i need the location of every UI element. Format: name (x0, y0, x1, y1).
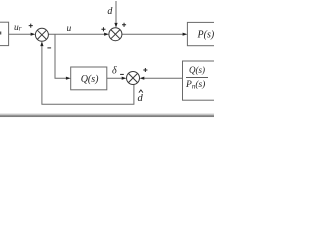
into plant box (183, 33, 188, 36)
svg-text:δ: δ (112, 66, 117, 77)
plus sign junction1 (29, 24, 33, 28)
disturbance d input wire (115, 1, 117, 25)
into Q(s) box (66, 77, 71, 80)
minus sign junction3 (120, 73, 124, 75)
controller box (cut off at left edge) (0, 22, 9, 45)
into junction2 from top (d) (114, 23, 117, 28)
feedback dhat path (42, 45, 134, 104)
wire Q(s) to junction3 (107, 77, 124, 79)
fragment of text in cut-off left box (0, 32, 1, 35)
bottom gray rule (0, 113, 214, 117)
into junction1 from left (31, 33, 36, 36)
svg-text:Q(s): Q(s) (81, 74, 99, 85)
arrowheads (31, 23, 188, 80)
summing junction 3 (127, 72, 140, 85)
svg-text:Q(s): Q(s) (189, 65, 205, 75)
plus sign junction3 (143, 68, 147, 72)
svg-text:ur: ur (14, 23, 22, 33)
plus sign junction2 left (101, 27, 105, 31)
plant box P(s) (cut off at right edge) (187, 22, 217, 45)
into junction2 from left (104, 33, 109, 36)
into junction3 from left (122, 77, 127, 80)
Q(s) box (71, 67, 107, 90)
svg-text:Pn(s): Pn(s) (185, 79, 205, 91)
svg-text:u: u (67, 24, 72, 34)
wire junction2 to plant box (122, 33, 184, 35)
into junction1 from below (feedback) (40, 41, 43, 46)
Q/Pn box (cut off at right edge) (183, 61, 223, 100)
wire from Q/Pn box to junction3 (143, 77, 183, 79)
svg-text:d: d (138, 93, 144, 104)
minus sign junction1 (47, 47, 51, 49)
wire u_r to summing junction 1 (9, 33, 32, 35)
into junction3 from right (140, 77, 145, 80)
wire junction1 to junction2 (48, 33, 105, 35)
summing junction 2 (109, 28, 122, 41)
summing junction 1 (35, 28, 48, 41)
plus sign junction2 top-right (122, 23, 126, 27)
tap from u down to Q(s) (55, 34, 68, 78)
svg-text:P(s): P(s) (197, 30, 215, 41)
